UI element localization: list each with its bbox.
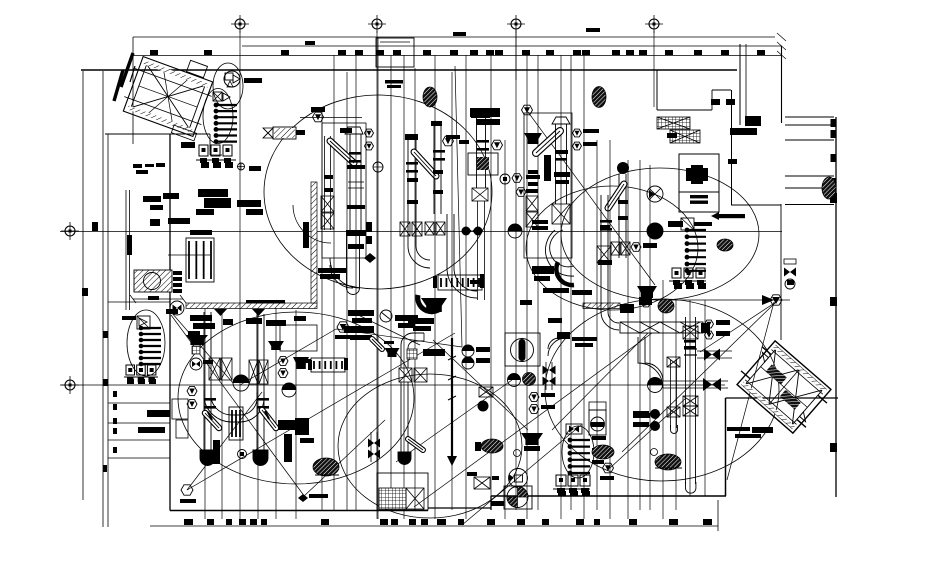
circle pair BC [508,374,521,387]
T2 flange bands [407,178,418,182]
equipment cloud E8 (top pumps) [213,63,243,109]
manifold bars right [694,222,712,226]
left dimension vertical x108 [107,134,109,527]
hatch square BC [407,349,417,359]
T6 valve X [597,246,611,263]
equipment cloud E7 (left pumps) [127,310,165,376]
T5 valve X big [552,204,570,224]
labels under T2 [348,310,374,316]
pump P-1 circle [224,71,240,87]
cap BC [398,452,411,465]
equipment cloud E6 [545,299,779,481]
labels row mid-left [246,318,262,324]
coil box top bar [190,230,212,235]
dark funnel right [637,286,657,298]
interior hatched wall horizontal [186,303,317,309]
dim end ticks x782 [777,33,786,41]
left dimension vertical x85 [82,71,84,500]
riser valve BR1 [683,326,698,339]
T4 heater box [468,153,498,175]
arrow on y300 [762,295,774,305]
left ladder label bar 2 [138,427,165,433]
valve circle BL2 [190,358,202,370]
T2 diagonal pipe [414,152,436,176]
circle valve centerline [508,224,522,238]
building bottom wall east [491,495,726,497]
room box top-right [679,154,719,212]
circle slash [380,310,392,322]
label row BC [423,349,445,356]
T1 side hex nuts [365,129,374,137]
branch pipe east [697,350,732,352]
equipment cloud E4 [178,312,414,484]
vertical pipe lines [204,308,206,519]
left wall tick 2 [92,222,98,231]
bottom dimension line [150,525,718,527]
cooling tower CT-1 base line [171,125,196,141]
riser cap BR [686,482,696,493]
hatched motor blob M2 [592,87,606,108]
T6 dark band [598,260,612,265]
top dimension line 1 [133,36,775,38]
pump pair circles [462,345,474,357]
hex-tri symbol a [443,136,454,146]
equipment cloud E1 [264,95,492,289]
T4 gauge [500,174,510,184]
equipment cloud E9 (manifold) [562,426,594,478]
equipment cloud E3 [526,186,698,310]
tick on line1 [453,32,466,36]
left manifold bar [122,316,136,320]
T5 vessel cap [552,117,570,124]
leader lines [187,333,455,490]
bars right [633,413,650,418]
T1 lower vessel [346,232,348,282]
building bottom wall mid [428,507,491,509]
top-right small ticks [711,99,720,105]
T2 elbow hatched [418,295,440,312]
funnel BL2 [268,341,284,350]
cooling tower CT-1 side rect [186,60,207,77]
pad side bars [173,271,182,275]
elbow under T1 [330,258,360,288]
pump circle center [233,375,249,391]
tall rect gauge [589,402,606,410]
hex+bar [337,322,349,332]
black pyramid [385,348,400,357]
left pump manifold [137,316,150,329]
riser U elbow [204,390,240,422]
left ladder line y423 [108,422,170,424]
top-right stair wall [656,70,658,110]
left step line y134 [105,133,210,135]
bottom-right notch vertical [725,398,727,496]
riser valve X 1 [209,358,220,380]
elbow top BC [548,338,566,356]
marker centerline A [239,31,241,308]
T5 hex pair [573,129,582,137]
pump circle PM1 [647,223,663,239]
pump manifold stack top-left [214,103,219,108]
hex funnel group [278,357,288,366]
fan coil unit FC-1 [273,127,296,139]
hatched motor blob M1 [423,87,437,107]
interior truss band [620,322,703,333]
T6 pipe upper [618,174,620,258]
black vbar 1 [213,440,220,464]
valve vertical BC [545,362,547,390]
T5 elbow hatch [556,262,574,285]
T3 lower pipe [446,214,448,268]
T1 vessel [349,134,351,232]
horizontal centerline y385 [60,384,725,386]
valve node circle BL [176,308,178,310]
T4 cap dark [471,109,490,118]
T5 valve X pair [526,196,538,211]
marker centerline D [653,31,655,107]
manifold mid [566,424,582,434]
pump circle BR [648,378,663,393]
labels right of T3 [408,318,434,324]
black rect BR [620,304,634,313]
fan scribble blob [313,458,339,476]
left ladder line y440 [108,439,170,441]
hex pair BL [187,387,197,396]
hatchblob BC [481,439,503,453]
grid marker 1 (left) [65,226,75,236]
cap dark BC [557,332,570,339]
air handler coil box [186,238,214,282]
top dimension line 2 [242,45,782,47]
hex hub BR [770,295,782,305]
equipment train T1 frame [322,123,366,258]
diag capsule BC [408,439,423,450]
labels near stairs [667,133,677,138]
T2 gauge circle [373,162,383,172]
elbow west BR [645,337,663,381]
hatchblob R [592,445,614,459]
T2 valve X pair [400,222,410,236]
big funnel BL [186,335,208,345]
T1 side dark bits [366,222,372,232]
left equipment labels cluster [143,196,161,202]
thick leader arrow [451,338,453,456]
small marker node [238,163,245,170]
bottom-right notch horizontal [726,397,839,399]
CT-2 label bars [727,427,750,431]
riser valve BR2 [683,396,698,406]
right wing ticks [831,119,837,127]
upper-right wall vertical x782 upper [781,46,783,123]
T4 hex pair [512,174,522,183]
top-right stair hatch 1 [657,117,690,129]
T5 vessel [555,124,557,204]
room box bars [690,195,708,198]
T5 flange bands [555,150,568,154]
T5 flange stack [532,220,548,224]
pump manifold right [685,228,690,233]
riser valve X 2 [249,360,258,384]
top-right stair hatch 2 [670,130,700,143]
interior hatched wall east piece [583,303,620,309]
grid marker A (top) [235,19,245,29]
stair arrows (thick diagonals) [121,53,133,87]
black rect cluster above T4 [470,108,500,117]
T1 valve X pair [321,196,334,212]
cooling tower CT-1 (top-left) [120,55,217,138]
hex bars BR [705,320,714,328]
labels cluster BL [190,315,212,321]
left strip line y302 [108,301,170,303]
black box near corner [745,116,761,126]
marker centerline B [376,31,378,519]
scribble blob BR [655,454,681,470]
T5 capsule pipe [536,131,560,153]
top dimension line 3 with ticks [133,55,782,57]
building top wall [81,69,737,71]
valve circle [282,383,296,397]
top duct rectangle [376,38,414,67]
equipment train T4 pipe [476,118,478,188]
arrow+bar below room [711,212,719,220]
hatched circle top BR [658,299,674,313]
starter panel group top-left [199,145,208,156]
pump pad (hatched) [134,270,172,292]
labels under [300,438,314,443]
wall x732 [731,90,733,205]
small equipment bar [181,142,195,148]
U pipe BC [401,333,424,368]
black bar v [303,222,309,248]
black blob big [295,418,309,435]
hatched blob right wall [822,177,836,199]
dark blob right [717,239,733,251]
T1 diagonal pipe [330,141,354,163]
building bottom wall west [170,510,428,512]
left dimension vertical x99 [102,71,104,527]
black circle node [478,401,489,412]
black vbar 2 [284,434,292,462]
T1 vessel cap [345,127,363,134]
starter panel bottom [556,475,566,486]
X-box with bar SW of pie [474,477,490,489]
room rect BL [280,325,317,351]
left wall ticks lower [103,331,108,338]
elbow T1b [293,205,331,243]
secondary riser BR [670,360,672,428]
left riser pair [125,190,127,310]
room box blob [686,168,708,181]
T6 hexes [631,243,641,252]
pie fan [504,486,532,509]
horizontal centerline y232 [60,231,782,233]
riser flanges BR [684,348,697,350]
diamond+bar [298,494,308,502]
equipment train T3 pipe [433,126,435,214]
leader y117 [300,117,362,119]
hex top BR [642,299,651,307]
black rects under T5 [532,266,554,274]
valve node V-L1 [170,301,184,315]
box X small [479,387,493,397]
funnel mid [421,298,447,312]
T5 dark bands [554,172,570,177]
wall top bar [246,300,285,304]
T2 elbow [408,246,430,268]
riser funnel tops [214,309,227,316]
T3 valve X pair [425,222,434,235]
label bars y163 cluster [133,164,142,168]
box with pin [681,218,694,230]
grid marker C (top) [511,19,521,29]
T6 valve pair [611,242,620,255]
interior hatched wall vertical [311,182,317,303]
T1 base bars [318,268,346,273]
T1 flange bands [347,165,365,169]
hex node H1 [313,112,324,122]
label rows x543 [543,288,569,293]
T6 top flange [617,162,629,174]
upper-right wall corner y204 [731,204,781,206]
grid marker B (top) [372,19,382,29]
X flange pair BC [399,368,412,382]
right wall tick 3 [830,443,837,452]
diag hatched pipe 2 [262,410,276,428]
valve circle VM1 [647,186,663,202]
duct label bars [385,80,403,84]
left ladder label bar 1 [147,410,170,417]
misc small label dashes [305,41,315,45]
left ladder line y458 [108,457,170,459]
pump P-2 symbol [213,92,222,101]
bars BC [572,337,597,341]
building left wall [169,134,171,511]
small triangle sym [227,81,233,87]
T5 inner dark bar [544,155,551,181]
M-circle [509,469,528,488]
bars manifold [592,436,606,440]
marker centerline C [515,31,517,80]
riser pipe 1 [203,312,205,455]
left room boxes [172,399,188,419]
top-right stair label bar [730,128,757,135]
T1 dark band [346,230,366,236]
circle node BR [651,449,658,456]
pipe down BC [400,382,402,455]
T4 lower pipe [477,201,479,300]
hatch ticks on leader [448,356,456,360]
T5 elbow [545,230,574,276]
grid marker 2 (left) [65,380,75,390]
label rows [395,315,418,321]
coil small [311,358,345,372]
right wall tick 2 [830,297,837,306]
left ladder ticks [113,391,117,397]
flange dashes [349,152,361,155]
top-right duct vertical x740 [739,44,741,125]
T2 pipe [407,140,409,246]
equipment cloud E5 [338,374,522,518]
upper-right wall vertical x782 lower [780,204,782,340]
riser cap 2 [253,450,268,466]
circle node [238,450,247,459]
hex dots BR [650,409,660,419]
funnel near C [524,133,542,144]
black funnel BC [521,433,543,445]
stair box bottom [377,473,428,510]
left ladder line y403 [108,402,170,404]
left dim arrow [133,298,183,300]
interior step line [168,254,210,256]
main riser BR [685,317,687,484]
hex node bottomleft [181,485,193,495]
sec riser cap [671,425,678,434]
hatch strokes on pipes [208,412,212,420]
T4 valve [472,188,488,201]
riser pipe 2 [256,314,258,455]
T6 flange bands [618,200,628,204]
valve dots centerline [462,227,471,236]
dark dot pairs mid [867,267,869,269]
equipment cloud E2 [561,168,759,300]
diag hatched pipe 1 [205,413,219,428]
right wall tick 1 [830,193,837,203]
right wing louver lines [785,116,834,118]
T6 diagonal [608,184,624,208]
fan square [505,333,540,366]
line y300 east [655,299,790,301]
left small bar [166,309,178,314]
T1 pipe A [324,136,326,230]
equipment train T6 pipe lower [600,195,602,312]
finned coil mid [438,275,482,290]
branch pipe west [663,380,728,382]
PM1 bar [668,221,683,227]
starter panel right [672,268,681,278]
left starter panel [126,365,135,375]
T6 elbow [601,312,619,330]
thick black riser bar [127,235,132,255]
coil box BL [229,407,243,440]
cooling tower CT-2 (bottom-right) [733,337,836,437]
T2 cap [405,134,418,140]
tick on line1 b [586,28,600,32]
T3 elbow [447,268,477,298]
valve assembly right-wall [784,259,796,264]
capsule small [372,339,382,349]
left wall tick 1 [82,288,88,296]
big pump ellipse [203,89,233,144]
starter feet bars [201,162,209,168]
labels [299,359,311,363]
hex pair BC [529,393,539,402]
hex-tri symbol b [492,140,503,150]
right wall [835,117,837,497]
grid marker D (top) [649,19,659,29]
label right [223,319,233,325]
small circle node [514,450,521,457]
hex node above T5 [522,105,533,115]
X valve dark pair [368,439,374,448]
diamond node [364,253,376,263]
label bar near P-1 [244,78,262,83]
T3 cap [431,121,442,126]
equipment train T5 frame [524,113,572,258]
riser cap 1 [200,450,215,466]
